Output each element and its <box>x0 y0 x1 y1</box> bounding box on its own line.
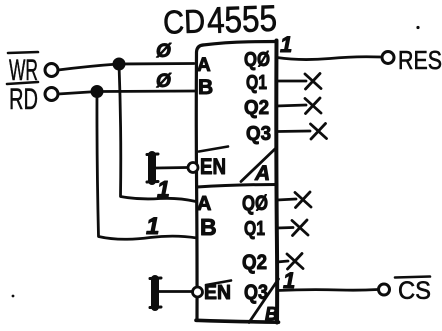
svg-text:Ø: Ø <box>156 71 172 92</box>
svg-text:EN: EN <box>200 154 226 179</box>
overline EN B <box>206 281 231 286</box>
wire bar to EN B <box>159 290 192 293</box>
svg-text:1: 1 <box>157 176 170 202</box>
wire Q2 stub section B <box>277 261 288 262</box>
EN bubble (section B) <box>193 287 203 297</box>
svg-text:B: B <box>200 214 217 240</box>
svg-text:Q3: Q3 <box>244 281 268 304</box>
section B marker slash <box>249 279 279 323</box>
wire Q2 stub <box>276 105 306 106</box>
wire Q0 stub section B <box>277 199 296 200</box>
wire Q3 stub <box>277 130 310 133</box>
input terminal WR <box>45 64 58 77</box>
wire WR to pin A <box>58 64 194 71</box>
svg-text:A: A <box>197 193 211 215</box>
svg-text:B: B <box>198 76 213 99</box>
svg-text:QØ: QØ <box>242 192 268 215</box>
no-connect X on Q2 <box>305 98 321 114</box>
wire Q1 stub <box>277 80 306 83</box>
svg-text:RD: RD <box>9 83 38 116</box>
overline EN A <box>199 147 228 152</box>
overline WR <box>8 52 38 53</box>
stray ink dot bottom left <box>12 295 15 298</box>
wire junction WR down to section B pin A <box>119 64 196 202</box>
section A marker slash <box>241 148 277 182</box>
IC body U1 <box>196 45 203 321</box>
wire Q0 to RES <box>277 57 381 60</box>
svg-text:Q1: Q1 <box>244 218 265 240</box>
wire bar to EN A <box>156 166 187 169</box>
no-connect X on Q1 <box>305 74 321 90</box>
svg-text:Q3: Q3 <box>246 123 271 145</box>
no-connect X on Q1 B <box>292 220 308 236</box>
overline RD <box>7 82 38 84</box>
overline CS <box>395 277 430 278</box>
output terminal RES <box>382 52 394 64</box>
svg-text:Ø: Ø <box>156 41 172 62</box>
no-connect X on Q2 B <box>287 254 303 270</box>
wire Q1 stub section B <box>277 226 293 229</box>
svg-text:CD: CD <box>162 2 205 40</box>
junction dot RD <box>91 86 103 98</box>
svg-text:QØ: QØ <box>244 49 270 71</box>
svg-text:1: 1 <box>146 213 159 240</box>
svg-text:A: A <box>197 55 211 76</box>
no-connect X on Q3 <box>311 124 327 140</box>
svg-text:Q2: Q2 <box>244 97 269 119</box>
stray ink dot top right <box>416 26 419 29</box>
svg-text:B: B <box>265 304 278 324</box>
decoder section divider <box>197 185 277 188</box>
input terminal RD <box>45 88 58 101</box>
wire Q3 to CS <box>277 290 378 291</box>
svg-text:CS: CS <box>398 277 431 305</box>
logic bar at EN section B <box>151 279 159 307</box>
no-connect X on Q0 B <box>295 192 311 208</box>
svg-text:Q1: Q1 <box>246 72 267 94</box>
svg-text:4555: 4555 <box>206 0 277 41</box>
wire RD to pin B <box>58 91 195 94</box>
junction dot WR <box>113 58 125 70</box>
logic bar at EN section A <box>148 155 156 181</box>
svg-text:RES: RES <box>398 45 442 75</box>
svg-text:A: A <box>254 162 270 185</box>
svg-text:1: 1 <box>280 32 292 57</box>
output terminal CS <box>379 284 390 295</box>
wire junction RD down to section B pin B <box>97 92 197 240</box>
svg-text:Q2: Q2 <box>242 251 267 274</box>
EN bubble (section A) <box>188 163 198 173</box>
